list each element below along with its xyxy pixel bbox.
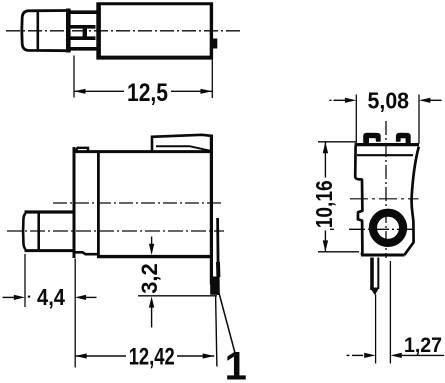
- svg-text:1,27: 1,27: [404, 333, 442, 357]
- svg-text:3,2: 3,2: [137, 263, 162, 294]
- svg-text:1: 1: [225, 345, 247, 383]
- svg-text:12,42: 12,42: [129, 344, 175, 371]
- svg-text:5,08: 5,08: [368, 88, 410, 114]
- svg-text:10,16: 10,16: [311, 180, 337, 228]
- svg-text:12,5: 12,5: [127, 79, 168, 107]
- svg-text:4,4: 4,4: [37, 284, 65, 310]
